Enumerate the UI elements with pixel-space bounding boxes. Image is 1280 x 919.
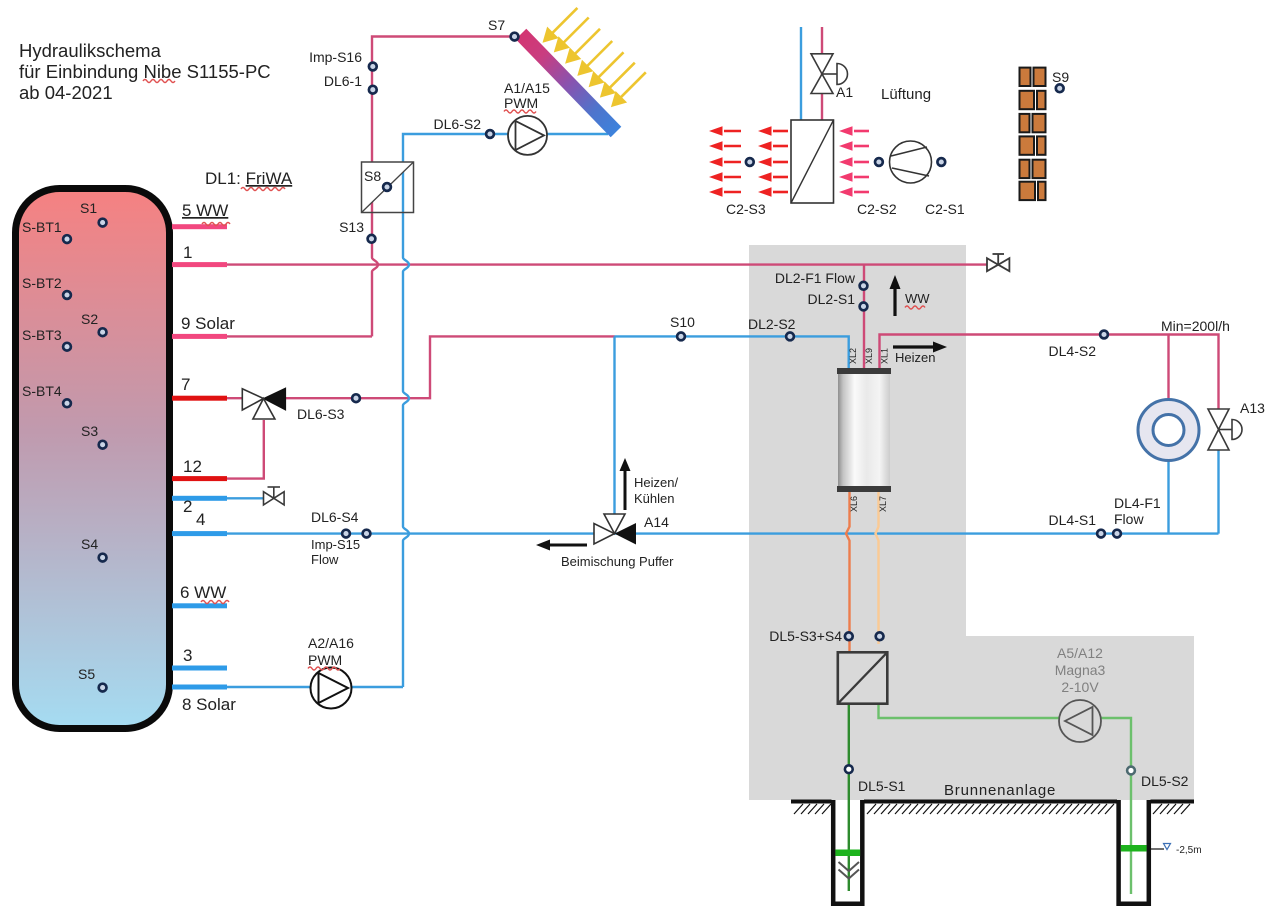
lueftung right arrows <box>839 126 869 197</box>
ground line + hatching <box>791 800 1194 804</box>
node DL6-S3 <box>352 394 360 402</box>
well 2 level mark <box>1149 844 1202 857</box>
svg-text:5 WW: 5 WW <box>182 201 228 220</box>
well 1 chevron <box>839 862 860 879</box>
svg-text:12: 12 <box>183 457 202 476</box>
svg-text:Min=200l/h: Min=200l/h <box>1161 318 1230 334</box>
svg-text:DL1: FriWA: DL1: FriWA <box>205 169 293 188</box>
node DL6-S2 <box>486 130 494 138</box>
svg-text:DL5-S2: DL5-S2 <box>1141 773 1189 789</box>
sun arrows <box>544 8 645 105</box>
svg-text:A13: A13 <box>1240 400 1265 416</box>
svg-text:S5: S5 <box>78 666 95 682</box>
node C2-S2 <box>875 158 883 166</box>
svg-text:DL4-F1: DL4-F1 <box>1114 495 1161 511</box>
node S-BT2 <box>63 291 71 299</box>
svg-text:DL5-S1: DL5-S1 <box>858 778 906 794</box>
well 2 <box>1119 800 1149 904</box>
pump A1/A15 <box>508 116 547 155</box>
svg-text:7: 7 <box>181 375 190 394</box>
port stub 9solar <box>172 334 227 339</box>
node C2-S3 <box>746 158 754 166</box>
lueftung valve A1 <box>811 54 847 94</box>
node DL2-S1 <box>860 303 868 311</box>
node S7 <box>511 33 519 41</box>
wire port7/DL6-S3 <box>227 336 615 398</box>
svg-text:DL4-S1: DL4-S1 <box>1049 512 1097 528</box>
svg-text:S2: S2 <box>81 311 98 327</box>
svg-text:PWM: PWM <box>504 95 538 111</box>
svg-text:C2-S1: C2-S1 <box>925 201 965 217</box>
wire XL1 heizen pink <box>880 335 1219 410</box>
wire lueftung red <box>821 27 823 120</box>
wire port4 main blue <box>227 532 1219 534</box>
arrow heizen/kuehlen up <box>620 458 631 510</box>
port stub 1 <box>172 262 227 267</box>
wire XL6 orange <box>846 492 850 652</box>
svg-text:Flow: Flow <box>1114 511 1144 527</box>
svg-text:WW: WW <box>905 291 930 306</box>
node S-BT1 <box>63 235 71 243</box>
sensor dots <box>63 33 1121 692</box>
svg-text:DL6-1: DL6-1 <box>324 73 362 89</box>
well 1 water bar <box>835 850 860 857</box>
heat exchanger S8 <box>362 162 414 213</box>
svg-text:DL2-S2: DL2-S2 <box>748 316 796 332</box>
wire 8solar <box>227 686 403 688</box>
svg-text:S10: S10 <box>670 314 695 330</box>
svg-text:Imp-S16: Imp-S16 <box>309 49 362 65</box>
svg-text:1: 1 <box>183 243 192 262</box>
svg-text:A1/A15: A1/A15 <box>504 80 550 96</box>
svg-text:Hydraulikschema: Hydraulikschema <box>19 40 162 61</box>
svg-text:DL4-S2: DL4-S2 <box>1049 343 1097 359</box>
svg-text:C2-S2: C2-S2 <box>857 201 897 217</box>
svg-text:Magna3: Magna3 <box>1055 662 1106 678</box>
svg-text:DL6-S3: DL6-S3 <box>297 406 345 422</box>
svg-text:A14: A14 <box>644 514 669 530</box>
svg-text:XL9: XL9 <box>864 348 874 364</box>
svg-text:C2-S3: C2-S3 <box>726 201 766 217</box>
svg-text:ab 04-2021: ab 04-2021 <box>19 82 113 103</box>
node S10 <box>677 333 685 341</box>
svg-text:S3: S3 <box>81 423 98 439</box>
svg-text:XL7: XL7 <box>878 496 888 512</box>
svg-text:XL6: XL6 <box>849 496 859 512</box>
node S13 <box>368 235 376 243</box>
valve 3way port7 <box>242 388 285 419</box>
heat pump unit <box>837 368 891 492</box>
heat pump port labels rotated <box>848 348 890 512</box>
node DL2-F1 <box>860 282 868 290</box>
well heat exchanger box <box>838 652 888 703</box>
svg-text:XL1: XL1 <box>880 348 890 364</box>
svg-text:4: 4 <box>196 510 205 529</box>
port stub 2 <box>172 496 227 501</box>
svg-text:A1: A1 <box>836 84 853 100</box>
node DL4-F1 <box>1113 530 1121 538</box>
svg-text:A5/A12: A5/A12 <box>1057 645 1103 661</box>
port stub 12 <box>172 476 227 481</box>
node S9 <box>1056 84 1064 92</box>
svg-text:S9: S9 <box>1052 69 1069 85</box>
node S8 <box>383 183 391 191</box>
port stub 5WW <box>172 224 227 229</box>
svg-text:S-BT1: S-BT1 <box>22 219 62 235</box>
svg-text:S-BT2: S-BT2 <box>22 275 62 291</box>
valve A14 3way <box>594 514 636 545</box>
svg-text:A2/A16: A2/A16 <box>308 635 354 651</box>
node Imp-S15 <box>363 530 371 538</box>
svg-text:Beimischung Puffer: Beimischung Puffer <box>561 554 674 569</box>
arrow beimischung left <box>536 540 587 551</box>
wire S10 blue <box>615 336 849 368</box>
wire 9solar <box>227 335 372 337</box>
fan C2-S1 <box>890 141 932 183</box>
node S2 <box>99 328 107 336</box>
valve A13 <box>1208 409 1242 450</box>
node DL5-S3 <box>845 632 853 640</box>
node DL5-S4 <box>876 632 884 640</box>
arrow heizen right <box>893 342 947 353</box>
node C2-S1 <box>937 158 945 166</box>
svg-text:2: 2 <box>183 497 192 516</box>
wire lueftung blue <box>800 27 802 120</box>
port stub 3 <box>172 666 227 671</box>
svg-text:S4: S4 <box>81 536 98 552</box>
svg-text:DL5-S3+S4: DL5-S3+S4 <box>769 628 842 644</box>
svg-text:Heizen/: Heizen/ <box>634 475 678 490</box>
svg-text:Brunnenanlage: Brunnenanlage <box>944 782 1056 799</box>
wire A13 bottom blue <box>1217 450 1219 534</box>
lueftung left arrows col2 <box>758 126 788 197</box>
node DL2-S2 <box>786 333 794 341</box>
svg-text:PWM: PWM <box>308 652 342 668</box>
svg-text:S-BT3: S-BT3 <box>22 327 62 343</box>
buffer tank <box>16 189 170 729</box>
svg-text:DL2-F1 Flow: DL2-F1 Flow <box>775 270 856 286</box>
wire port1 main pink <box>227 263 987 265</box>
pump magna3 <box>1059 700 1101 742</box>
well 1 <box>833 800 862 904</box>
port stub 6WW <box>172 603 227 608</box>
heat pump gray area <box>749 245 966 800</box>
spellcheck squiggles <box>143 80 925 671</box>
svg-text:Lüftung: Lüftung <box>881 86 931 103</box>
svg-text:DL2-S1: DL2-S1 <box>808 291 856 307</box>
svg-text:S-BT4: S-BT4 <box>22 383 62 399</box>
svg-text:9 Solar: 9 Solar <box>181 314 235 333</box>
port stub 8solar <box>172 685 227 690</box>
svg-text:S8: S8 <box>364 168 381 184</box>
wire blue solar vertical <box>403 134 608 687</box>
well 2 water bar <box>1121 845 1147 852</box>
lueftung heat exchanger box <box>791 120 834 203</box>
svg-text:S7: S7 <box>488 17 505 33</box>
arrow WW up <box>890 275 901 316</box>
wire light green <box>879 704 1132 894</box>
wire circle branch pink <box>1167 335 1169 400</box>
pump A2/A16 <box>311 668 352 709</box>
svg-text:DL6-S4: DL6-S4 <box>311 509 359 525</box>
port stub 7 <box>172 396 227 401</box>
svg-text:3: 3 <box>183 646 192 665</box>
node DL5-S1 <box>845 765 853 773</box>
wire blue to A14 <box>613 336 615 523</box>
node S-BT4 <box>63 399 71 407</box>
svg-text:S1: S1 <box>80 200 97 216</box>
svg-text:Flow: Flow <box>311 552 339 567</box>
brick wall S9 <box>1020 68 1046 201</box>
svg-text:S13: S13 <box>339 219 364 235</box>
node S-BT3 <box>63 343 71 351</box>
wire XL9 red vertical <box>863 265 865 368</box>
svg-text:6 WW: 6 WW <box>180 583 226 602</box>
valve top right shutoff <box>987 254 1009 271</box>
node S5 <box>99 684 107 692</box>
wire port12 <box>227 420 264 479</box>
port stub 4 <box>172 531 227 536</box>
node DL6-1 <box>369 86 377 94</box>
node S1 <box>99 219 107 227</box>
wire circle bottom blue <box>1167 461 1169 534</box>
node S3 <box>99 441 107 449</box>
well gray area <box>749 636 1194 800</box>
node DL5-S2 <box>1127 767 1135 775</box>
node DL4-S1 <box>1097 530 1105 538</box>
solar collector <box>516 29 622 138</box>
lueftung left arrows col1 <box>709 126 741 197</box>
node Imp-S16 <box>369 63 377 71</box>
wire port2 <box>227 497 263 499</box>
svg-text:Imp-S15: Imp-S15 <box>311 537 360 552</box>
svg-text:XL2: XL2 <box>848 348 858 364</box>
valve port2 shutoff <box>264 487 285 505</box>
svg-text:2-10V: 2-10V <box>1061 679 1099 695</box>
node DL4-S2 <box>1100 331 1108 339</box>
node DL6-S4 <box>342 530 350 538</box>
node S4 <box>99 554 107 562</box>
svg-text:Kühlen: Kühlen <box>634 491 674 506</box>
svg-text:8 Solar: 8 Solar <box>182 695 236 714</box>
svg-text:-2,5m: -2,5m <box>1176 845 1202 856</box>
wire dark green well1 <box>848 704 850 891</box>
wire solar vertical <box>372 37 516 337</box>
wire XL7 light orange <box>876 492 879 644</box>
svg-text:DL6-S2: DL6-S2 <box>434 116 482 132</box>
heating circle <box>1138 400 1199 461</box>
svg-text:Heizen: Heizen <box>895 350 935 365</box>
